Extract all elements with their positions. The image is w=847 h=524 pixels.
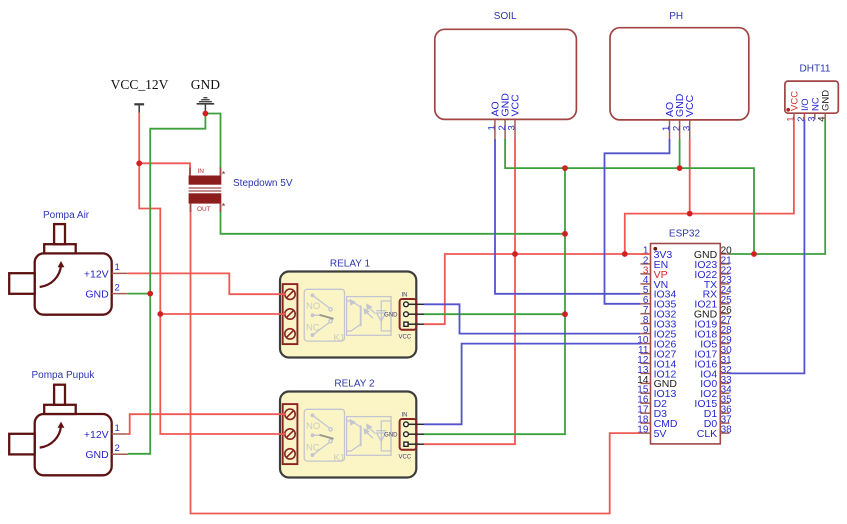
svg-text:Stepdown 5V: Stepdown 5V	[233, 178, 293, 189]
DHT11 pin 3 NC	[814, 113, 816, 119]
ESP32 pin 22 IO22	[720, 273, 729, 275]
DHT11 pin 2 I/O	[803, 113, 805, 119]
sensor module PH	[610, 11, 749, 139]
sensor module SOIL	[435, 11, 577, 139]
wire relay2 IN to ESP32 pin 10 IO26	[424, 344, 640, 425]
junction VCC_12V stepdown branch	[136, 160, 142, 166]
voltage regulator U$1 Stepdown 5V	[189, 168, 293, 213]
svg-text:Pompa Air: Pompa Air	[43, 210, 90, 221]
ESP32 pin 36 D1	[720, 412, 729, 414]
ESP32 pin 3 VP	[640, 273, 650, 275]
junction at GND symbol	[203, 111, 209, 117]
ESP32 pin 14 GND	[640, 382, 650, 384]
ESP32 pin 25 IO21	[720, 303, 729, 305]
ESP32 pin 8 IO33	[640, 323, 650, 325]
svg-text:3: 3	[507, 125, 518, 130]
supply symbol VCC_12V	[111, 77, 169, 113]
ESP32 pin 9 IO25	[640, 333, 650, 335]
ESP32 pin 27 IO19	[720, 323, 729, 325]
wire relay2 GND riser	[424, 168, 565, 434]
wire ESP32 pin20 GND to DHT11 GND	[730, 120, 826, 255]
ESP32 pin 17 D3	[640, 412, 650, 414]
svg-text:GND: GND	[821, 90, 832, 111]
svg-text:VCC: VCC	[790, 91, 801, 111]
wire 3V3 branch up to DHT11 VCC	[625, 120, 794, 255]
PH pin 3 VCC	[689, 120, 691, 139]
wire stepdown OUT 5V bottom run to ESP32 pin 19	[191, 204, 641, 514]
ESP32 pin 21 IO23	[720, 263, 729, 265]
svg-text:IN: IN	[198, 168, 205, 175]
svg-text:CLK: CLK	[697, 428, 717, 440]
wire Pompa Pupuk +12V to relay2 terminal 1	[128, 414, 286, 434]
ESP32 pin 34 IO2	[720, 392, 729, 394]
wire PH GND drop	[679, 139, 681, 168]
SOIL pin 1 AO	[494, 119, 496, 139]
wire VCC_12V branch to stepdown IN	[139, 163, 190, 175]
svg-text:5V: 5V	[654, 428, 667, 440]
junction 3V3 at ESP32 pin1	[622, 251, 628, 257]
ESP32 pin 31 IO16	[720, 362, 729, 364]
stepdown OUT winding	[189, 193, 222, 203]
svg-text:Pompa Pupuk: Pompa Pupuk	[32, 370, 96, 381]
ESP32 pin 12 IO14	[640, 362, 650, 364]
ESP32 pin 2 EN	[640, 263, 650, 265]
svg-text:38: 38	[721, 425, 733, 436]
ESP32 pin 29 IO5	[720, 343, 729, 345]
ESP32 pin 6 IO35	[640, 303, 650, 305]
ESP32 pin 23 TX	[720, 283, 729, 285]
SOIL pin 3 VCC	[514, 119, 516, 139]
svg-text:3: 3	[681, 126, 692, 131]
svg-text:OUT: OUT	[197, 206, 211, 213]
svg-text:DHT11: DHT11	[800, 64, 831, 75]
ESP32 pin 20 GND	[720, 253, 729, 255]
ground symbol GND	[191, 77, 220, 113]
ESP32 pin 30 IO17	[720, 353, 729, 355]
junction PH VCC	[687, 211, 693, 217]
svg-text:RELAY 1: RELAY 1	[330, 259, 371, 270]
wire Pompa Air +12V to relay1 terminal 1	[128, 273, 286, 294]
DHT11 pin 1 indicator dot	[786, 108, 790, 112]
ESP32 pin 1 3V3	[640, 253, 650, 255]
svg-text:*: *	[222, 170, 226, 180]
stepdown IN winding	[189, 176, 222, 185]
DHT11 pin 4 GND	[824, 113, 826, 119]
stepdown pin stubs	[190, 168, 221, 213]
wire SOIL GND to ESP32 GND run	[505, 139, 754, 254]
junction SOIL VCC at 3V3 run	[512, 251, 518, 257]
wire DHT11 I/O to ESP32 pin 32 IO4	[730, 120, 805, 374]
svg-text:I/O: I/O	[800, 98, 811, 111]
wire 3V3 net ESP32 pin1 to relay1 VCC	[424, 254, 651, 324]
svg-text:ESP32: ESP32	[669, 229, 701, 240]
wire SOIL AO to ESP32 pin 5 IO34	[495, 139, 640, 294]
svg-text:VCC: VCC	[684, 94, 696, 117]
ESP32 pin 16 D2	[640, 402, 650, 404]
ESP32 pin 38 CLK	[720, 432, 729, 434]
wire relay1 IN to ESP32 pin 9 IO33	[424, 304, 640, 333]
svg-text:RELAY 2: RELAY 2	[334, 379, 375, 390]
junction Pompa Air GND	[147, 291, 153, 297]
ESP32 pin 28 IO18	[720, 333, 729, 335]
wire Pompa Air GND branch	[128, 293, 150, 295]
PH pin 1 AO	[669, 120, 671, 139]
ESP32 pin 26 GND	[720, 313, 729, 315]
svg-text:*: *	[222, 202, 226, 212]
ESP32 pin 37 D0	[720, 422, 729, 424]
junction relay1 GND	[562, 311, 568, 317]
svg-text:VCC_12V: VCC_12V	[111, 77, 169, 92]
svg-text:3: 3	[806, 117, 817, 122]
wire SOIL VCC to relay2 VCC	[424, 139, 515, 444]
wire GND symbol to stepdown IN right	[205, 114, 220, 176]
DHT11 pin 1 VCC	[793, 113, 795, 119]
wire relay1 GND	[424, 313, 565, 315]
wire VCC_12V branch to relay1 terminal 2	[160, 313, 286, 315]
svg-text:GND: GND	[191, 77, 220, 92]
ESP32 pin 18 CMD	[640, 422, 650, 424]
ESP32 pin 19 5V	[640, 432, 650, 434]
ESP32 pin 11 IO27	[640, 353, 650, 355]
wire GND symbol to pump grounds	[128, 114, 206, 454]
svg-text:NC: NC	[810, 97, 821, 111]
svg-text:SOIL: SOIL	[494, 11, 517, 22]
ESP32 pin 4 VN	[640, 283, 650, 285]
junction relay1 terminal2 branch	[157, 311, 163, 317]
ESP32 pin 7 IO32	[640, 313, 650, 315]
ESP32 pin 35 IO15	[720, 402, 729, 404]
microcontroller U1 ESP32	[637, 229, 732, 444]
stepdown core lines	[189, 187, 222, 189]
wire stepdown OUT right ground run	[221, 204, 566, 234]
PH pin 2 GND	[679, 120, 681, 139]
SOIL pin 2 GND	[504, 119, 506, 139]
ESP32 pin 33 IO0	[720, 382, 729, 384]
junction ground bus at SOIL GND run	[562, 165, 568, 171]
svg-text:1: 1	[786, 117, 797, 122]
wire PH AO to ESP32 pin 6 IO35	[605, 139, 670, 304]
junction PH GND	[677, 165, 683, 171]
ESP32 pin 5 IO34	[640, 293, 650, 295]
wire VCC_12V main vertical	[139, 113, 286, 435]
wire PH VCC drop	[689, 139, 691, 214]
ESP32 pin 1 indicator dot	[653, 247, 657, 251]
ESP32 pin 10 IO26	[640, 343, 650, 345]
ESP32 pin 32 IO4	[720, 372, 729, 374]
junction stepdown ground run	[562, 231, 568, 237]
ESP32 pin 15 IO13	[640, 392, 650, 394]
svg-text:VCC: VCC	[510, 94, 522, 117]
junction ESP32 pin20 GND	[751, 251, 757, 257]
ESP32 pin 24 RX	[720, 293, 729, 295]
svg-text:PH: PH	[669, 11, 683, 22]
sensor U2 DHT11	[785, 64, 838, 122]
ESP32 pin 13 IO12	[640, 372, 650, 374]
